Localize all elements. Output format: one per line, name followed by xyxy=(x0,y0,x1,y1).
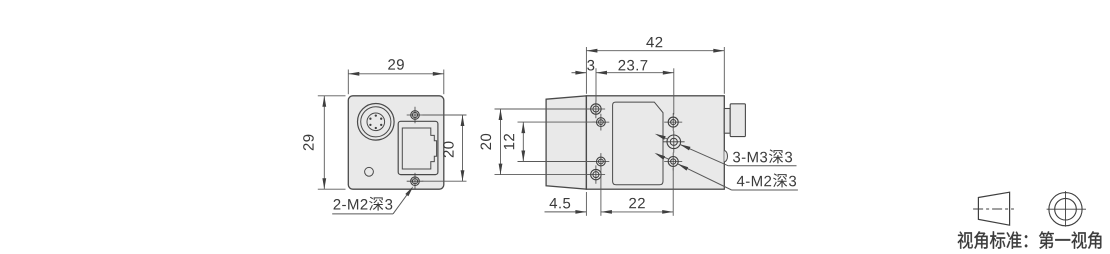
dim 29 width text xyxy=(388,59,395,69)
hole M2 upper-left side xyxy=(597,118,606,127)
dim 3 outside arrow xyxy=(572,72,587,74)
leader 3-M3 continuation xyxy=(657,135,668,140)
rear connector body xyxy=(730,104,745,137)
circular power connector xyxy=(358,104,395,141)
dim 29 height text xyxy=(303,135,314,151)
dim 23.7 extension lines xyxy=(595,68,597,101)
dim 12 line xyxy=(522,122,524,161)
dim 20 extension lines xyxy=(423,114,467,116)
dim 42 line xyxy=(586,50,724,52)
dim 20 line xyxy=(462,115,464,181)
leader 4-M2 continuation xyxy=(657,154,669,159)
leader to bottom screw xyxy=(393,190,411,214)
side view front bezel xyxy=(546,96,586,189)
dim 12 extension lines xyxy=(518,121,596,123)
first-angle cone symbol xyxy=(978,192,1009,225)
dim 20 side line xyxy=(500,109,502,175)
rear connector neck xyxy=(724,109,730,134)
dim 20 text xyxy=(443,142,454,158)
dim 4.5 text xyxy=(550,198,558,208)
dim 29 height line xyxy=(323,96,325,189)
dim 23.7 text xyxy=(618,60,625,70)
dim 20 side text xyxy=(481,134,492,150)
label 2-M2深3 xyxy=(334,199,341,209)
circle crosshair xyxy=(1047,208,1086,210)
dim 29 width line xyxy=(348,73,444,75)
cone centerline xyxy=(973,208,1014,210)
dim 4.5 outside arrow xyxy=(545,211,587,213)
hole M3 middle-right side xyxy=(667,135,681,149)
label 3-M3深3 xyxy=(733,152,740,163)
bottom extension lines xyxy=(585,192,587,216)
leader 3-M3 to middle hole xyxy=(680,144,729,166)
dim 42 extension lines xyxy=(585,47,587,94)
dim 22 text xyxy=(629,198,636,208)
thumb screw bump xyxy=(724,151,727,162)
dim 3 text xyxy=(587,60,594,71)
hole M3 top-left side xyxy=(591,104,601,114)
dim 29 width extension lines xyxy=(347,70,349,95)
dim 23.7 line xyxy=(596,72,674,74)
screw hole M2 bottom (rear) xyxy=(411,177,420,186)
label 4-M2深3 xyxy=(737,176,745,186)
dim 12 text xyxy=(504,134,514,149)
leader 4-M2 to lower hole xyxy=(678,164,732,190)
RJ45 jack inner profile xyxy=(402,128,436,169)
LED indicator xyxy=(365,167,374,176)
hole M2 lower-left side xyxy=(597,157,606,166)
side panel plate xyxy=(613,102,663,185)
caption 视角标准：第一视角 xyxy=(958,231,973,248)
hole M2 lower-right side xyxy=(668,157,678,167)
dim 29 height extension lines xyxy=(318,95,346,97)
projection circles xyxy=(1049,193,1082,226)
hole M2 upper-right side xyxy=(668,117,678,127)
side view camera body xyxy=(586,96,724,189)
dim 22 line xyxy=(601,211,673,213)
RJ45 jack outline xyxy=(398,121,438,174)
dim 20 side extension lines xyxy=(495,108,590,110)
rear view camera body xyxy=(348,96,444,189)
hole M3 bottom-left side xyxy=(591,169,601,179)
dim 42 text xyxy=(646,37,654,47)
screw hole M2 top (rear) xyxy=(411,111,420,120)
